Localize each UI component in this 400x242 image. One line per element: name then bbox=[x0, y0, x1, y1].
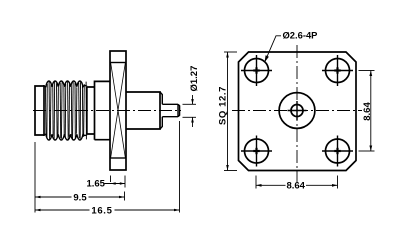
center pin bbox=[162, 104, 179, 116]
svg-text:Ø2.6-4P: Ø2.6-4P bbox=[283, 30, 318, 41]
center mark bottom-right bbox=[322, 136, 353, 167]
svg-text:Ø1.27: Ø1.27 bbox=[189, 66, 200, 92]
dimension Ø1.27 label bbox=[189, 66, 200, 92]
neck section bbox=[87, 87, 95, 134]
connector front collar bbox=[35, 85, 44, 136]
square flange outline bbox=[239, 52, 357, 171]
svg-text:1.65: 1.65 bbox=[86, 178, 105, 189]
thread flank lines bbox=[45, 82, 86, 140]
dimension 9.5 line bbox=[35, 196, 125, 199]
flange diagonal bbox=[111, 63, 126, 158]
extension lines flange thickness bbox=[111, 176, 126, 188]
body collar bbox=[95, 81, 111, 139]
svg-text:8.64: 8.64 bbox=[286, 181, 305, 192]
leader Ø2.6-4P bbox=[265, 36, 282, 63]
dimension 8.64 bottom label bbox=[286, 181, 305, 192]
center contact cross bbox=[288, 101, 307, 120]
dimension 16.5 line bbox=[35, 209, 180, 212]
rear insulator cylinder bbox=[126, 92, 160, 129]
label Ø2.6-4P bbox=[283, 30, 318, 41]
dimension 9.5 label bbox=[73, 192, 87, 203]
mounting hole top-left bbox=[245, 59, 269, 83]
mounting hole bottom-left bbox=[245, 139, 269, 163]
dimension 8.64 bottom extension lines bbox=[256, 176, 338, 189]
dimension Ø1.27 arrow lines bbox=[191, 95, 194, 127]
dimension 1.65 line bbox=[105, 182, 126, 185]
flange horizontal centerline bbox=[232, 110, 362, 112]
dimension 8.64 right label bbox=[362, 102, 373, 121]
flange vertical centerline bbox=[296, 45, 298, 182]
flange (side view) bbox=[110, 51, 126, 170]
dimension SQ 12.7 label bbox=[218, 86, 229, 125]
svg-text:8.64: 8.64 bbox=[362, 102, 373, 121]
center mark top-left bbox=[241, 55, 272, 86]
extension line pin tip bbox=[179, 121, 181, 213]
dimension 16.5 label bbox=[91, 205, 112, 216]
extension line front face bbox=[34, 142, 36, 213]
dimension SQ 12.7 line bbox=[226, 52, 229, 171]
center bore outer circle bbox=[279, 93, 315, 129]
svg-text:16.5: 16.5 bbox=[91, 205, 112, 216]
svg-text:SQ 12.7: SQ 12.7 bbox=[218, 86, 229, 125]
dimension Ø1.27 extension lines bbox=[183, 104, 197, 117]
flange diagonal 2 bbox=[111, 63, 126, 158]
flange chamfer edge top bbox=[110, 62, 126, 64]
threaded section crest profile bbox=[44, 81, 87, 140]
rear cylinder end face bbox=[160, 92, 162, 129]
dimension 1.65 label bbox=[86, 178, 105, 189]
dimension 8.64 right line bbox=[369, 71, 372, 152]
flange chamfer edge bottom bbox=[110, 157, 126, 159]
mounting hole top-right bbox=[326, 59, 350, 83]
center contact circle bbox=[291, 105, 303, 117]
svg-text:9.5: 9.5 bbox=[73, 192, 87, 203]
centerline (left view axis) bbox=[33, 110, 181, 112]
center mark bottom-left bbox=[241, 136, 272, 167]
extension line flange rear bbox=[124, 192, 126, 201]
center mark top-right bbox=[322, 55, 353, 86]
dimension 8.64 right extension lines bbox=[359, 71, 375, 152]
dimension SQ 12.7 extension lines bbox=[224, 52, 237, 171]
thread runout line bbox=[86, 87, 88, 134]
mounting hole bottom-right bbox=[326, 139, 350, 163]
dimension 8.64 bottom line bbox=[256, 184, 338, 187]
